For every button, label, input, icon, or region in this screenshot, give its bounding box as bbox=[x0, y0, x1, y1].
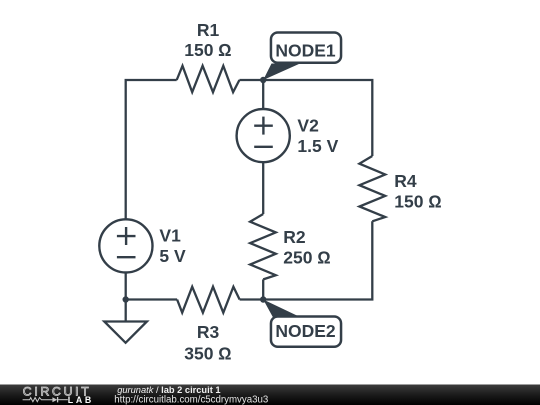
ground bbox=[125, 300, 127, 322]
svg-text:NODE1: NODE1 bbox=[275, 41, 336, 61]
svg-text:NODE2: NODE2 bbox=[275, 321, 336, 341]
node NODE1 callout box bbox=[271, 33, 341, 63]
svg-text:150 Ω: 150 Ω bbox=[394, 192, 442, 212]
svg-text:V2: V2 bbox=[297, 116, 319, 136]
footer bar bbox=[0, 385, 540, 405]
svg-text:5 V: 5 V bbox=[159, 246, 186, 266]
svg-text:350 Ω: 350 Ω bbox=[184, 343, 232, 363]
resistor R2 bbox=[250, 214, 276, 279]
logo diode bbox=[52, 397, 57, 402]
wire R2 to node2 bbox=[262, 279, 264, 299]
wire node1 to top-right corner and down bbox=[263, 80, 372, 156]
svg-text:1.5 V: 1.5 V bbox=[297, 136, 338, 156]
logo squiggle wire bbox=[23, 398, 53, 402]
wire R4 bottom to bottom-right corner bbox=[263, 221, 372, 299]
svg-text:R1: R1 bbox=[197, 20, 220, 40]
wire R1 to node1 bbox=[239, 79, 263, 81]
resistor R4 bbox=[359, 156, 385, 221]
svg-text:R3: R3 bbox=[197, 322, 220, 342]
svg-text:R4: R4 bbox=[394, 171, 417, 191]
voltage source V1 bbox=[99, 219, 152, 272]
resistor R1 bbox=[177, 66, 240, 92]
wire R3 to node2 bbox=[240, 298, 264, 300]
node junction dot bottom-left bbox=[123, 296, 129, 302]
svg-text:V1: V1 bbox=[159, 226, 181, 246]
node NODE2 callout tail bbox=[263, 300, 300, 318]
wire V2 to R2 bbox=[262, 162, 264, 214]
node NODE2 callout box bbox=[271, 317, 341, 347]
svg-text:gurunatk / lab 2 circuit 1: gurunatk / lab 2 circuit 1 bbox=[117, 385, 220, 395]
svg-text:http://circuitlab.com/c5cdrymv: http://circuitlab.com/c5cdrymvya3u3 bbox=[114, 394, 268, 405]
voltage source V2 bbox=[237, 109, 290, 162]
svg-text:LAB: LAB bbox=[68, 395, 94, 405]
node NODE1 dot bbox=[260, 77, 266, 83]
svg-text:150 Ω: 150 Ω bbox=[184, 40, 232, 60]
wire node1 down to V2 bbox=[262, 80, 264, 109]
node NODE1 callout tail bbox=[263, 64, 300, 81]
wire top-left horizontal and left vertical bbox=[126, 80, 177, 220]
resistor R3 bbox=[177, 287, 240, 313]
wire V1 bottom and bottom-left corner to R3 bbox=[126, 272, 177, 299]
svg-text:R2: R2 bbox=[283, 227, 306, 247]
node NODE2 dot bbox=[260, 296, 266, 302]
svg-text:250 Ω: 250 Ω bbox=[283, 248, 331, 268]
